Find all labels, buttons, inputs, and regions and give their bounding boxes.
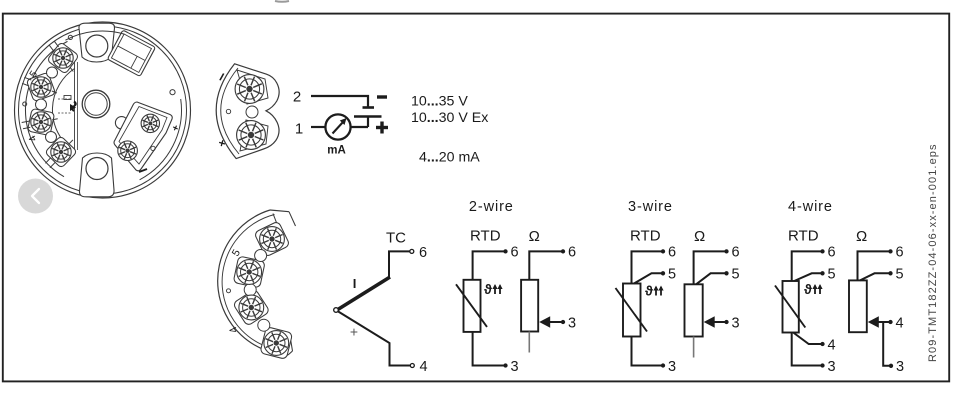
svg-text:5: 5 xyxy=(732,267,740,283)
svg-text:3-wire: 3-wire xyxy=(628,199,673,215)
svg-text:R09-TMT182ZZ-04-06-xx-en-001.e: R09-TMT182ZZ-04-06-xx-en-001.eps xyxy=(927,143,939,362)
svg-text:RTD: RTD xyxy=(630,227,661,244)
svg-text:5: 5 xyxy=(668,267,676,283)
svg-text:Ω: Ω xyxy=(529,228,540,245)
svg-text:ϑ: ϑ xyxy=(484,282,492,297)
svg-text:6: 6 xyxy=(419,245,427,261)
svg-text:3: 3 xyxy=(828,359,836,375)
svg-text:RTD: RTD xyxy=(788,227,819,244)
svg-text:4: 4 xyxy=(828,337,836,353)
svg-text:5: 5 xyxy=(896,267,904,283)
svg-text:5: 5 xyxy=(828,267,836,283)
svg-text:6: 6 xyxy=(896,245,904,261)
svg-text:2-wire: 2-wire xyxy=(469,199,514,215)
svg-text:ϑ: ϑ xyxy=(645,284,653,299)
svg-text:6: 6 xyxy=(828,245,836,261)
svg-text:ϑ: ϑ xyxy=(804,282,812,297)
svg-text:6: 6 xyxy=(511,245,519,261)
svg-text:3: 3 xyxy=(568,315,576,331)
svg-text:Ω: Ω xyxy=(694,228,705,245)
svg-text:3: 3 xyxy=(511,359,519,375)
svg-text:+: + xyxy=(350,324,358,340)
svg-text:10...35 V: 10...35 V xyxy=(411,94,468,110)
svg-text:4: 4 xyxy=(896,315,904,331)
svg-text:TC: TC xyxy=(386,230,406,247)
svg-text:10...30 V Ex: 10...30 V Ex xyxy=(411,110,488,126)
svg-text:1: 1 xyxy=(295,121,303,138)
svg-text:3: 3 xyxy=(668,359,676,375)
svg-text:3: 3 xyxy=(732,315,740,331)
svg-text:2: 2 xyxy=(293,89,301,106)
svg-text:6: 6 xyxy=(568,245,576,261)
svg-text:I: I xyxy=(353,276,357,291)
svg-text:3: 3 xyxy=(896,359,904,375)
svg-text:4...20 mA: 4...20 mA xyxy=(419,150,480,166)
svg-text:6: 6 xyxy=(668,245,676,261)
svg-text:6: 6 xyxy=(732,245,740,261)
svg-text:RTD: RTD xyxy=(470,227,501,244)
svg-text:mA: mA xyxy=(327,145,346,157)
svg-text:Ω: Ω xyxy=(856,228,867,245)
svg-text:4-wire: 4-wire xyxy=(788,199,833,215)
svg-text:4: 4 xyxy=(420,359,428,375)
